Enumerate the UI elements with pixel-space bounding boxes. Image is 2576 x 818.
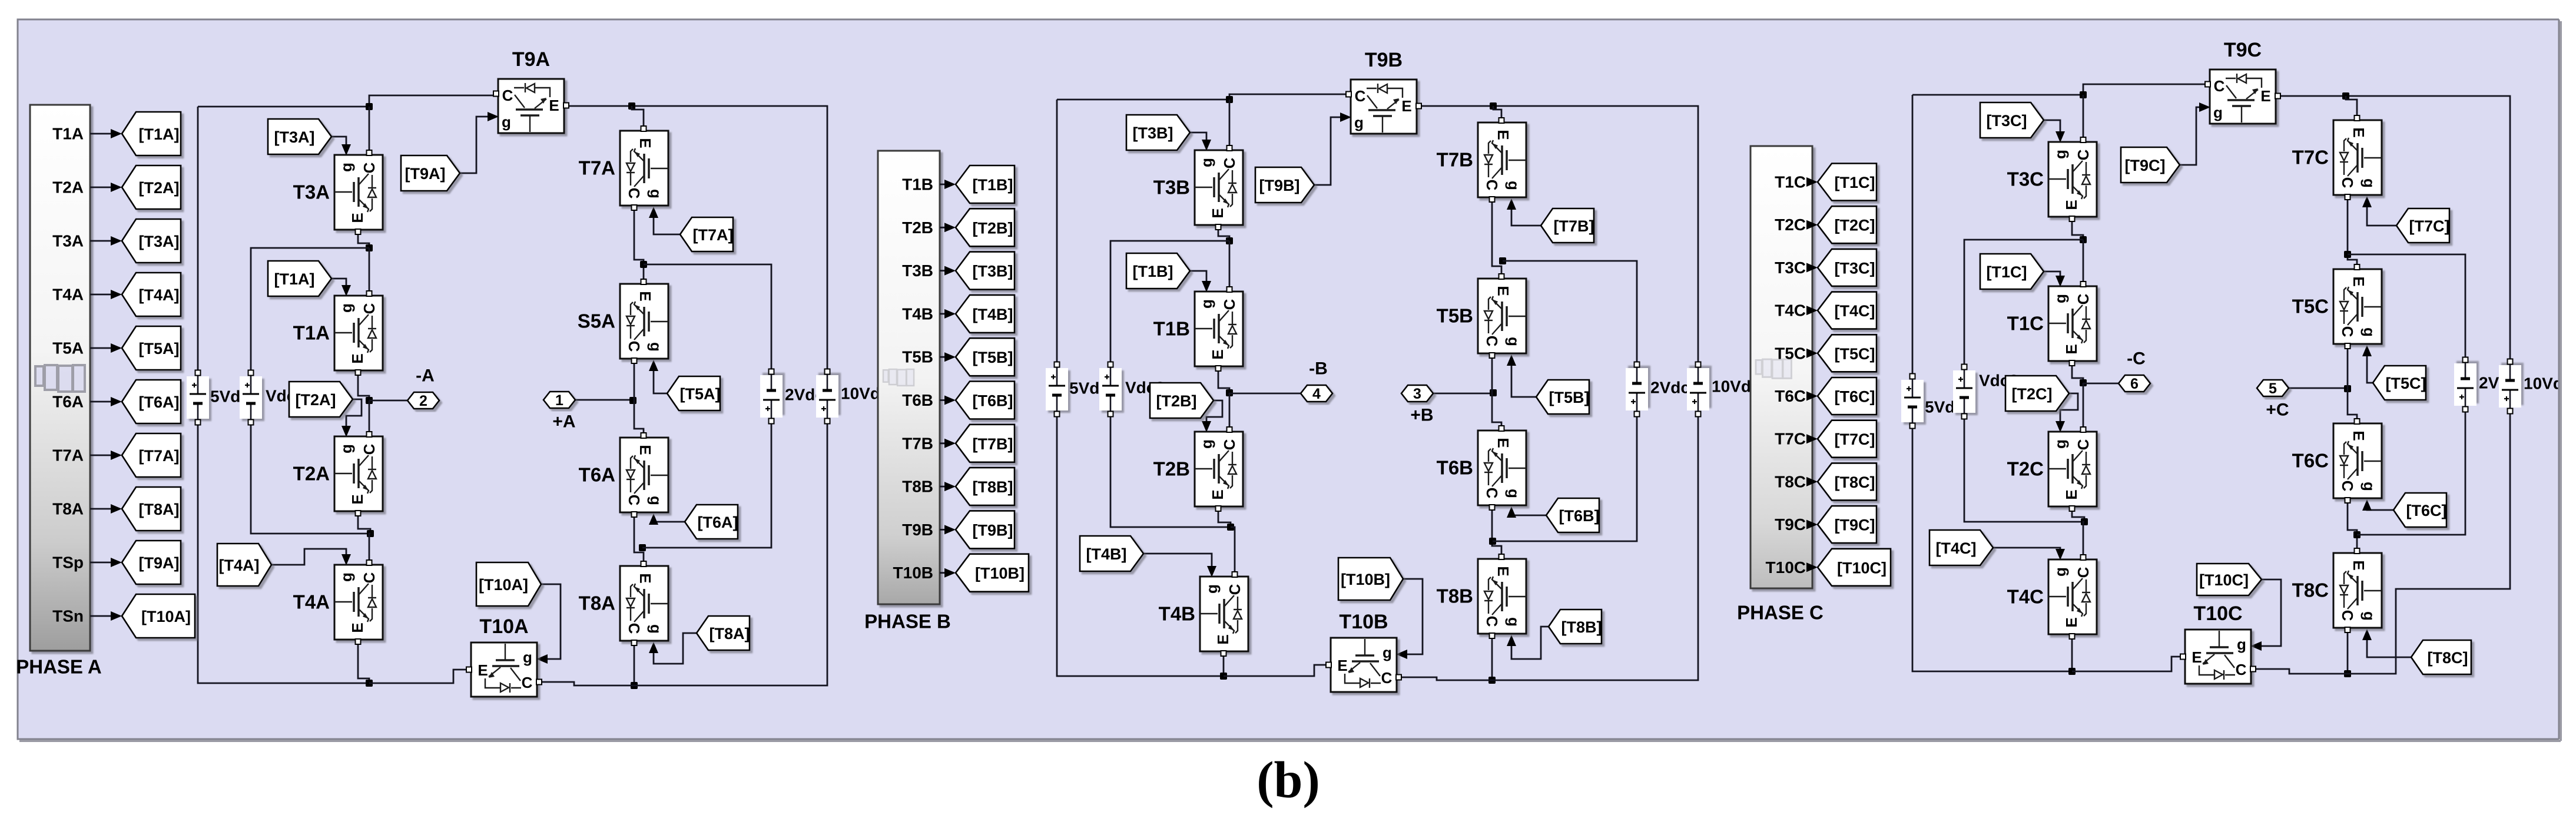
tag [T9C] [2121, 147, 2180, 183]
IGBT block T4A [334, 560, 383, 644]
arrowhead T5C gate [2362, 345, 2372, 356]
arrowhead T9B gate [1340, 112, 1351, 122]
arrowhead [T2A] [111, 183, 122, 192]
svg-text:[T8A]: [T8A] [710, 625, 750, 643]
wire T10C C to bus [2254, 669, 2348, 674]
arrowhead [T6B] [944, 396, 956, 405]
arrowhead T8C gate [2362, 629, 2372, 640]
arrowhead T2A gate [342, 426, 351, 437]
junction 2Vdc return A [639, 544, 646, 551]
arrowhead [T1B] [944, 180, 956, 189]
IGBT block T3A [334, 150, 383, 234]
svg-text:T8A: T8A [52, 500, 84, 518]
svg-text:[T4C]: [T4C] [1936, 539, 1977, 557]
tag [T5C] [2373, 366, 2426, 400]
goto tag [T7A] [122, 433, 181, 477]
wire junction to T7A E [632, 106, 644, 128]
tag [T6A] [685, 505, 738, 539]
svg-text:[T3A]: [T3A] [139, 233, 180, 250]
svg-text:+B: +B [1410, 406, 1433, 425]
wire T3C to [T3C] [1812, 267, 1812, 269]
svg-text:T2C: T2C [1775, 216, 1806, 234]
wire T8A C to bottom bus [634, 643, 635, 685]
wire [T9C] to gate [2180, 107, 2206, 165]
svg-text:T6B: T6B [902, 391, 933, 409]
svg-text:T6A: T6A [579, 464, 615, 486]
junction bottom bus right B [1488, 677, 1496, 684]
wire down to T3C C [2083, 95, 2084, 139]
svg-text:[T7A]: [T7A] [693, 226, 734, 244]
DC source 2Vdc A [760, 369, 783, 424]
IGBT block T1C [2048, 282, 2097, 366]
wire [T10B] to gate [1400, 579, 1423, 654]
DC source 10Vdc C [2499, 359, 2521, 414]
svg-text:[T10C]: [T10C] [1837, 559, 1887, 577]
arrowhead [T10A] [111, 611, 122, 621]
svg-text:[T9B]: [T9B] [1259, 177, 1300, 194]
wire junction to T4A C [369, 534, 370, 562]
svg-text:[T4C]: [T4C] [1835, 302, 1875, 320]
output port 3 (+B) [1401, 385, 1433, 402]
svg-text:PHASE C: PHASE C [1737, 602, 1824, 624]
junction VdcB return [1227, 524, 1234, 531]
arrowhead T4A gate [342, 554, 351, 565]
wire T9B to [T9B] [940, 529, 950, 531]
svg-text:[T3B]: [T3B] [973, 263, 1013, 280]
PHASE A mask icon [35, 365, 85, 392]
wire T4C E to bottom bus [2071, 637, 2073, 671]
arrowhead [T7B] [944, 439, 956, 448]
svg-text:T3C: T3C [1775, 259, 1806, 277]
wire to 2Vdc rail A [644, 264, 771, 369]
arrowhead T2C gate [2056, 421, 2065, 432]
wire T4B to [T4B] [940, 313, 950, 315]
goto tag [T3C] [1818, 249, 1877, 286]
wire top bus left phase A [198, 106, 369, 108]
arrowhead T9A gate [488, 112, 499, 121]
wire T5B C to node [1491, 356, 1493, 393]
arrowhead [T4B] [944, 309, 956, 319]
tag [T1B] [1126, 253, 1190, 289]
svg-text:T7C: T7C [1775, 430, 1806, 448]
wire [T2A] to gate [346, 399, 362, 433]
wire port +A to node [575, 400, 633, 400]
junction node -A [366, 397, 373, 404]
svg-text:T4A: T4A [52, 286, 84, 304]
svg-text:-C: -C [2127, 349, 2146, 369]
wire T1C E to node -C [2072, 363, 2083, 383]
wire T8B C to bottom bus [1491, 636, 1493, 680]
wire VdcC rail bottom [1964, 419, 2084, 522]
wire top bus left phase C [1912, 94, 2083, 96]
IGBT block T2B [1195, 427, 1243, 511]
tag [T9B] [1255, 167, 1314, 203]
wire [T5A] to gate [654, 365, 667, 393]
junction T3B/T1B [1226, 237, 1233, 244]
svg-text:T7A: T7A [52, 446, 84, 465]
arrowhead T10C gate [2250, 641, 2262, 651]
svg-text:[T8A]: [T8A] [139, 501, 180, 518]
svg-text:[T6C]: [T6C] [1835, 388, 1875, 406]
svg-text:T3A: T3A [52, 232, 84, 250]
wire T1B E to node -B [1218, 369, 1229, 393]
IGBT block T9C [2205, 69, 2280, 124]
svg-text:2Vdc: 2Vdc [1650, 379, 1690, 397]
wire junction to T1B C [1229, 241, 1231, 289]
goto tag [T9A] [122, 541, 181, 584]
svg-text:[T5A]: [T5A] [680, 385, 721, 403]
svg-text:[T10B]: [T10B] [975, 565, 1025, 582]
svg-text:3: 3 [1413, 386, 1421, 402]
arrowhead T3B gate [1202, 140, 1211, 151]
wire [T3B] to gate [1190, 133, 1206, 147]
goto tag [T1A] [122, 112, 181, 155]
wire down to T3B C [1229, 100, 1231, 147]
arrowhead T6A gate [649, 514, 658, 525]
arrowhead [T3C] [1806, 263, 1818, 272]
wire bottom bus to 10Vdc rail B [1492, 416, 1698, 680]
goto tag [T4B] [956, 295, 1015, 333]
wire T3C E to junction [2072, 219, 2083, 240]
arrowhead [T9C] [1806, 520, 1818, 529]
goto tag [T10A] [122, 594, 195, 638]
arrowhead T10A gate [536, 654, 548, 664]
wire 5Vdc rail top A [197, 107, 199, 370]
wire T2C E down [2072, 509, 2084, 522]
wire bottom bus to 10Vdc rail A [634, 423, 827, 685]
svg-text:[T5B]: [T5B] [1549, 389, 1590, 406]
IGBT block T10B [1326, 638, 1401, 692]
tag [T3C] [1980, 102, 2044, 138]
svg-text:(b): (b) [1256, 752, 1320, 809]
tag [T7B] [1541, 208, 1594, 243]
IGBT block T4B [1200, 572, 1248, 656]
svg-text:T2A: T2A [293, 463, 330, 485]
junction top bus T3C [2080, 91, 2087, 98]
wire top bus left phase B [1057, 99, 1229, 101]
svg-text:S5A: S5A [578, 310, 615, 332]
tag [T9A] [401, 155, 460, 191]
wire node to port -A [369, 400, 407, 402]
svg-text:2: 2 [419, 393, 427, 409]
svg-text:[T10A]: [T10A] [479, 576, 528, 594]
wire [T2B] to gate [1206, 400, 1222, 428]
tag [T5B] [1536, 380, 1590, 414]
goto tag [T2C] [1818, 206, 1877, 243]
arrowhead T7C gate [2362, 196, 2372, 207]
svg-text:PHASE A: PHASE A [16, 656, 101, 678]
arrowhead T9C gate [2199, 102, 2210, 112]
IGBT block T7A [620, 126, 668, 210]
svg-text:[T5C]: [T5C] [1835, 345, 1875, 363]
svg-text:T2C: T2C [2007, 458, 2044, 480]
svg-text:T9C: T9C [1775, 515, 1806, 534]
wire 5Vdc rail top B [1056, 100, 1058, 362]
tag [T10B] [1338, 558, 1403, 600]
IGBT block T9A [493, 79, 569, 133]
svg-text:[T9B]: [T9B] [973, 521, 1013, 539]
goto tag [T8C] [1818, 463, 1877, 500]
svg-text:T7B: T7B [902, 434, 933, 452]
svg-text:[T9A]: [T9A] [139, 554, 180, 572]
wire [T7A] to gate [654, 211, 680, 234]
junction bottom bus C [2068, 668, 2076, 675]
wire [T4A] to gate [271, 549, 346, 565]
wire node to port -C [2083, 383, 2119, 383]
goto tag [T9B] [956, 511, 1015, 548]
wire node to T6A E [634, 400, 644, 435]
svg-text:[T4B]: [T4B] [973, 306, 1013, 323]
IGBT block T10C [2180, 630, 2256, 684]
tag [T3B] [1126, 115, 1190, 150]
svg-text:T1B: T1B [902, 175, 933, 194]
svg-text:[T1B]: [T1B] [1133, 263, 1173, 280]
IGBT block T8A [620, 561, 668, 645]
svg-text:[T4A]: [T4A] [219, 557, 260, 574]
arrowhead T8B gate [1507, 635, 1516, 646]
arrowhead T5A gate [649, 360, 658, 371]
wire T7A to [T7A] [90, 455, 116, 456]
wire T7C to [T7C] [1812, 438, 1812, 440]
svg-text:[T6C]: [T6C] [2406, 502, 2447, 519]
arrowhead [T1C] [1806, 177, 1818, 187]
svg-text:T10B: T10B [1339, 611, 1388, 633]
subsystem block PHASE A [30, 105, 90, 651]
goto tag [T6A] [122, 380, 181, 423]
junction T3A/T1A [366, 244, 373, 251]
wire T1A to [T1A] [90, 133, 116, 135]
wire node to T2C C [2083, 383, 2084, 429]
arrowhead T4B gate [1207, 566, 1216, 577]
output port 5 (+C) [2257, 380, 2289, 397]
wire junction to T7C E [2346, 96, 2357, 117]
svg-text:[T3B]: [T3B] [1133, 124, 1173, 142]
svg-text:T1C: T1C [2007, 313, 2044, 335]
junction 2Vdc return C [2353, 531, 2360, 538]
svg-text:T9B: T9B [1365, 49, 1403, 71]
junction bottom bus A [366, 680, 373, 687]
IGBT block T1A [334, 291, 383, 375]
svg-text:[T4A]: [T4A] [139, 286, 180, 304]
junction node +C [2344, 385, 2351, 392]
wire T10B to [T10B] [940, 572, 950, 574]
wire [T6C] to gate [2367, 504, 2393, 510]
goto tag [T1C] [1818, 164, 1877, 201]
wire VdcA rail bottom [251, 425, 370, 534]
wire [T3C] to gate [2044, 120, 2060, 138]
svg-text:6: 6 [2130, 376, 2139, 392]
wire junction to VdcC rail [1964, 240, 2083, 365]
panel frame re-stroke [2559, 0, 2576, 818]
svg-text:[T1A]: [T1A] [274, 270, 315, 288]
svg-text:[T4B]: [T4B] [1086, 545, 1127, 563]
wire [T6B] to gate [1511, 511, 1546, 515]
svg-text:T1A: T1A [293, 322, 330, 344]
svg-text:[T5A]: [T5A] [139, 340, 180, 357]
DC source 5Vdc2 B [1046, 362, 1068, 417]
svg-text:T9B: T9B [902, 521, 933, 539]
wire [T10A] to gate [541, 584, 561, 659]
junction 2Vdc tap A [640, 261, 647, 268]
wire node to T2B C [1229, 393, 1231, 429]
wire T3A E to junction [358, 232, 369, 248]
svg-text:T5A: T5A [52, 339, 84, 357]
IGBT block T8B [1478, 554, 1526, 638]
arrowhead [T4C] [1806, 306, 1818, 315]
svg-text:T2B: T2B [1153, 458, 1190, 480]
IGBT block T7B [1478, 118, 1526, 202]
arrowhead T7B gate [1507, 198, 1516, 210]
goto tag [T9C] [1818, 506, 1877, 543]
wire junction to T1A C [369, 248, 370, 293]
goto tag [T10B] [956, 554, 1029, 592]
arrowhead [T5A] [111, 343, 122, 353]
svg-text:T6A: T6A [52, 393, 84, 411]
svg-text:T4A: T4A [293, 591, 330, 613]
svg-text:T6C: T6C [1775, 387, 1806, 405]
goto tag [T5B] [956, 338, 1015, 376]
wire [T8B] to gate [1511, 627, 1549, 659]
arrowhead T3A gate [342, 144, 351, 155]
svg-text:T3B: T3B [902, 261, 933, 280]
svg-text:T9A: T9A [512, 48, 550, 71]
svg-text:[T2B]: [T2B] [973, 219, 1013, 237]
svg-text:[T3C]: [T3C] [1987, 112, 2027, 130]
tag [T1A] [268, 261, 331, 296]
wire T4C to [T4C] [1812, 310, 1812, 312]
DC source 2Vdc C [2454, 357, 2476, 412]
wire port +B to node [1433, 393, 1493, 393]
wire bus to T9B collector [1229, 94, 1348, 100]
junction bottom bus B [1220, 673, 1227, 680]
wire T2C to [T2C] [1812, 224, 1812, 226]
svg-text:PHASE B: PHASE B [864, 611, 951, 632]
tag [T2A] [289, 382, 353, 417]
wire T2B E down [1218, 509, 1231, 527]
wire node to port -B [1229, 393, 1301, 393]
IGBT block T2C [2048, 427, 2097, 511]
svg-text:[T6A]: [T6A] [698, 514, 738, 531]
wire junction to T7B E [1493, 106, 1501, 120]
svg-text:T6C: T6C [2292, 450, 2329, 472]
output port 4 (-B) [1301, 385, 1332, 402]
wire to 2Vdc rail B [1503, 261, 1637, 362]
IGBT block T5C [2333, 264, 2382, 349]
tag [T6C] [2393, 493, 2447, 527]
IGBT block T9B [1346, 80, 1421, 134]
arrowhead [T8A] [111, 504, 122, 514]
wire [T5C] to gate [2367, 350, 2373, 383]
tag [T10C] [2197, 564, 2262, 595]
wire T4B E to bottom bus [1223, 654, 1225, 676]
svg-text:T5C: T5C [2292, 296, 2329, 317]
svg-text:1: 1 [555, 392, 563, 409]
svg-text:+C: +C [2266, 400, 2289, 420]
wire bottom bus to T10A E [369, 670, 468, 683]
wire T6C to [T6C] [1812, 395, 1812, 397]
svg-text:T3C: T3C [2007, 168, 2044, 190]
wire 5Vdc rail bottom B [1057, 416, 1224, 676]
junction bottom bus right C [2344, 670, 2351, 677]
junction VdcA return [367, 530, 374, 537]
svg-text:T1A: T1A [52, 125, 84, 143]
IGBT block T3C [2048, 137, 2097, 221]
svg-text:T4B: T4B [902, 304, 933, 323]
svg-text:[T7B]: [T7B] [1554, 217, 1594, 235]
wire [T7B] to gate [1511, 203, 1541, 226]
wire 2Vdc return A [642, 423, 771, 548]
DC source Vdc2 C [1953, 365, 1975, 419]
svg-text:T8C: T8C [1775, 472, 1806, 491]
IGBT block T6C [2333, 419, 2382, 503]
wire 5Vdc rail top C [1912, 95, 1914, 374]
wire VdcB rail bottom [1110, 416, 1231, 527]
svg-text:T1C: T1C [1775, 173, 1806, 191]
svg-text:[T8C]: [T8C] [1835, 473, 1875, 491]
IGBT block T3B [1195, 145, 1243, 230]
wire T8C to [T8C] [1812, 481, 1812, 483]
tag [T7A] [680, 217, 734, 251]
junction VdcC return [2081, 518, 2088, 525]
tag [T3A] [268, 119, 331, 154]
subsystem block PHASE C [1751, 146, 1812, 588]
IGBT block T2A [334, 432, 383, 516]
svg-text:5: 5 [2269, 380, 2277, 397]
arrowhead [T4A] [111, 290, 122, 299]
tag [T4C] [1929, 530, 1993, 565]
junction node -C [2080, 379, 2087, 386]
svg-text:T10C: T10C [1766, 558, 1806, 577]
IGBT block S5A [620, 279, 668, 363]
svg-text:T10A: T10A [479, 615, 528, 638]
arrowhead T4C gate [2056, 549, 2065, 560]
wire down to T3A C [369, 107, 370, 152]
arrowhead [T5B] [944, 352, 956, 362]
wire [T1B] to gate [1190, 271, 1206, 288]
svg-text:-B: -B [1309, 359, 1328, 379]
junction 2Vdc tap C [2344, 251, 2351, 258]
PHASE C mask icon [1756, 359, 1791, 378]
subsystem block PHASE B [878, 151, 940, 604]
wire T7B to [T7B] [940, 442, 950, 444]
svg-text:T8B: T8B [1437, 585, 1473, 607]
junction 2Vdc return B [1489, 538, 1496, 545]
svg-text:T5B: T5B [1437, 305, 1473, 327]
wire [T8A] to gate [654, 633, 697, 664]
svg-text:[T7B]: [T7B] [973, 435, 1013, 453]
junction top bus T3A [366, 103, 373, 110]
arrowhead [T8C] [1806, 477, 1818, 486]
svg-text:[T2A]: [T2A] [139, 179, 180, 197]
svg-text:T7B: T7B [1437, 149, 1473, 171]
wire T9C E to 10Vdc rail C [2277, 96, 2510, 359]
svg-text:[T6B]: [T6B] [973, 392, 1013, 410]
junction 2Vdc tap B [1499, 257, 1506, 264]
wire T5C C to node [2347, 346, 2349, 389]
wire bottom bus to T10C E [2072, 657, 2182, 671]
junction node +B [1490, 389, 1497, 396]
arrowhead T1B gate [1202, 281, 1211, 292]
wire T2B to [T2B] [940, 227, 950, 228]
wire T3A to [T3A] [90, 240, 116, 242]
svg-text:[T7C]: [T7C] [1835, 430, 1875, 448]
svg-text:T9C: T9C [2224, 39, 2262, 61]
wire [T1A] to gate [331, 279, 346, 292]
wire T9B E to 10Vdc rail B [1418, 106, 1698, 362]
arrowhead [T7C] [1806, 434, 1818, 443]
DC source 10Vdc A [816, 369, 838, 424]
tag [T7C] [2396, 208, 2450, 243]
